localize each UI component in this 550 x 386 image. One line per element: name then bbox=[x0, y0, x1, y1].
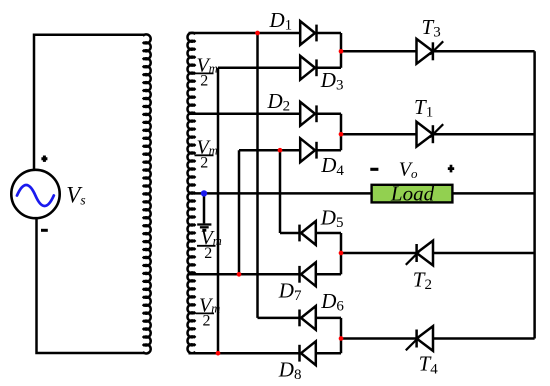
wire T1 anode bbox=[341, 133, 417, 136]
load box bbox=[372, 185, 453, 203]
svg-text:T2: T2 bbox=[413, 268, 432, 294]
wire vertical x239 D4 feed to lower tap bbox=[238, 150, 241, 274]
thyristor T1 bbox=[417, 122, 433, 147]
wire vertical x280 D4 feed to D5 bbox=[279, 150, 282, 233]
diode D6 bbox=[301, 306, 316, 330]
svg-text:D6: D6 bbox=[320, 289, 344, 315]
svg-text:T3: T3 bbox=[422, 15, 441, 41]
svg-text:T4: T4 bbox=[419, 352, 439, 378]
svg-text:2: 2 bbox=[203, 312, 211, 329]
wire D6 anode to corner bbox=[316, 317, 341, 320]
wire vertical connector D6-D8 outputs bbox=[340, 318, 343, 353]
wire vertical connector D2-D4 outputs bbox=[340, 114, 343, 150]
diode D2 bbox=[300, 102, 315, 126]
diode D1 bbox=[300, 21, 315, 45]
wire tap4 to D7 bbox=[189, 273, 300, 276]
svg-text:D4: D4 bbox=[320, 153, 344, 179]
wire right bus bbox=[533, 51, 536, 338]
svg-text:Vs: Vs bbox=[66, 183, 85, 208]
diode D3 bbox=[300, 56, 315, 80]
wire T3 cathode to bus bbox=[433, 50, 535, 53]
node dot T3 junction bbox=[339, 49, 344, 54]
wire left top loop bbox=[34, 35, 144, 170]
transformer secondary winding bbox=[187, 33, 195, 354]
wire D6 feed from x257 bbox=[258, 317, 300, 320]
wire T3 anode bbox=[341, 50, 417, 53]
wire left bottom loop bbox=[37, 218, 145, 353]
wire bottom tap to D8 bbox=[189, 352, 300, 355]
node dot lower tap x239 bbox=[237, 272, 242, 277]
ground bbox=[203, 193, 206, 223]
svg-text:Load: Load bbox=[390, 182, 435, 206]
wire vertical x257 top tap to D6 feed bbox=[256, 33, 259, 318]
node dot T4 junction bbox=[339, 336, 344, 341]
wire center tap to load bbox=[189, 192, 372, 195]
diode D8 bbox=[301, 341, 316, 365]
wire T1 cathode to bus bbox=[433, 133, 535, 136]
wire T2 junction to cathode bbox=[341, 252, 416, 255]
svg-text:D8: D8 bbox=[278, 357, 302, 383]
wire D3 cathode to corner bbox=[317, 67, 341, 70]
minus terminal of source bbox=[41, 229, 48, 232]
thyristor T3 bbox=[417, 39, 433, 64]
svg-text:2: 2 bbox=[204, 245, 212, 262]
svg-text:2: 2 bbox=[200, 72, 208, 89]
svg-text:D1: D1 bbox=[269, 8, 293, 34]
wire T4 junction to cathode bbox=[341, 337, 416, 340]
thyristor T2 bbox=[417, 241, 433, 266]
transformer primary winding bbox=[143, 34, 151, 354]
wire T4 anode to bus bbox=[433, 337, 535, 340]
fraction bar Vm/2 segment3 bbox=[197, 245, 216, 247]
wire D4 feed bbox=[239, 149, 300, 152]
wire D5 anode to corner bbox=[316, 232, 341, 235]
wire D5 feed from x280 bbox=[280, 232, 300, 235]
wire vertical connector D1-D3 outputs bbox=[340, 33, 343, 68]
wire D7 anode to corner bbox=[316, 273, 341, 276]
wire load to bus bbox=[452, 192, 534, 195]
plus sign near load bbox=[448, 165, 454, 173]
wire vertical connector D5-D7 outputs bbox=[340, 233, 343, 274]
wire D3 feed from x218 bbox=[218, 67, 300, 70]
wire top tap to D1 bbox=[189, 32, 301, 35]
node dot bottom tap x218 bbox=[216, 351, 221, 356]
node dot top tap x257 bbox=[255, 31, 260, 36]
svg-text:T1: T1 bbox=[414, 95, 433, 121]
wire vertical x218 bottom-tap to D3 bbox=[217, 68, 220, 353]
fraction bar Vm/2 segment1 bbox=[195, 72, 214, 74]
wire D4 cathode to corner bbox=[317, 149, 341, 152]
diode D4 bbox=[300, 138, 315, 162]
thyristor T4 bbox=[417, 326, 433, 351]
fraction bar Vm/2 segment2 bbox=[195, 154, 214, 156]
node dot D4 feed x280 bbox=[278, 148, 283, 153]
wire tap2 to D2 bbox=[189, 113, 301, 116]
diode D7 bbox=[301, 262, 316, 286]
plus terminal of source bbox=[41, 156, 47, 162]
node dot T2 junction bbox=[339, 251, 344, 256]
diode D5 bbox=[301, 221, 316, 245]
node dot T1 junction bbox=[339, 132, 344, 137]
minus sign near load bbox=[370, 168, 378, 171]
wire D8 anode to corner bbox=[316, 352, 341, 355]
sine wave bbox=[17, 185, 54, 206]
svg-text:D5: D5 bbox=[320, 206, 344, 232]
ac source Vs bbox=[11, 170, 59, 218]
svg-text:D2: D2 bbox=[267, 89, 291, 115]
svg-text:2: 2 bbox=[200, 154, 208, 171]
node dot center tap blue bbox=[201, 190, 207, 196]
wire T2 anode to bus bbox=[433, 252, 535, 255]
svg-text:D3: D3 bbox=[320, 68, 344, 94]
svg-text:Vo: Vo bbox=[399, 159, 418, 182]
fraction bar Vm/2 segment4 bbox=[196, 312, 215, 314]
wire D1 cathode to corner bbox=[317, 32, 341, 35]
wire D2 cathode to corner bbox=[317, 113, 341, 116]
